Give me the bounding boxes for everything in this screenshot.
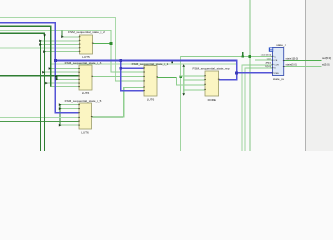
tap arrow U3p4 (56, 78, 59, 81)
svg-text:D[5:0]: D[5:0] (265, 66, 271, 68)
tap arrow U5p6 (59, 124, 62, 127)
wire U5 pin5 long medium (0, 121, 79, 122)
wire net2 light green horizontal y29.5 (0, 30, 111, 31)
wire U1 pin1 tap stub (61, 30, 62, 37)
wire reg Q2 output (284, 66, 322, 67)
wire U2rep output blue (219, 79, 238, 80)
wire vertical x241.5 (241, 64, 242, 151)
junction node net2/U1out (110, 42, 113, 45)
wire U1 pin5 branch (44, 51, 80, 52)
tap arrow x183 bottom (182, 93, 185, 96)
wire dark green y33 (0, 33, 45, 34)
wire vertical x183.6 (183, 66, 184, 96)
wire reg Q output (284, 60, 322, 61)
svg-text:CLK: CLK (267, 58, 272, 60)
wire U1 output to net2 (93, 43, 112, 44)
junction node x180.4 y76.6 (179, 75, 182, 78)
tap arrow x183 top (182, 64, 185, 67)
svg-text:FSM_sequential_state_rep: FSM_sequential_state_rep (193, 67, 230, 71)
wire blue branch to U4 pin1 (120, 67, 144, 68)
junction node blue x120 y60 (120, 59, 123, 62)
wire U5 output (92, 116, 125, 117)
wire U1 pin4 long (0, 48, 80, 49)
selected instance icon (269, 47, 273, 51)
svg-text:FDRE: FDRE (208, 98, 216, 102)
wire U5 pin2 branch (60, 108, 79, 109)
svg-text:FSM_sequential_state_i_1: FSM_sequential_state_i_1 (132, 62, 169, 66)
wire U3 pin2 branch (44, 72, 79, 73)
tap arrow U1p2 (39, 40, 42, 43)
tap arrow U1p5 (43, 50, 46, 53)
junction node blue x236.5 y72.5 (235, 72, 238, 75)
wire U5 pin1 branch (60, 104, 79, 105)
junction node x242.6 y56.3 (242, 55, 244, 57)
junction node blue x55 (54, 59, 57, 62)
wire vertical x249.8 top to bottom (250, 0, 251, 151)
wire long y56 to reg pinC (180, 56, 273, 57)
right panel background (306, 0, 333, 151)
wire reg pinCE from below (241, 64, 272, 65)
wire blue branch to U4 pin6 (120, 90, 144, 91)
LUT U1 FSM_sequential_state_i_2 (68, 30, 105, 59)
wire U1 pin2 branch (40, 40, 80, 41)
tap arrow U1p1 (61, 35, 64, 38)
wire U3 pin1 branch (50, 68, 79, 69)
svg-text:LUT6: LUT6 (147, 98, 155, 102)
LUT U2 FSM_sequential_state_rep (193, 67, 230, 102)
wire stub x242.6 above pinC line (242, 52, 243, 57)
tick mark on net (171, 62, 173, 64)
schematic canvas background (0, 0, 333, 151)
svg-text:LUT6: LUT6 (82, 91, 90, 95)
svg-text:CLR: CLR (274, 64, 279, 66)
wire blue branch to U6 pinR (236, 72, 273, 74)
wire U1 pin1 branch (61, 37, 79, 38)
svg-text:state[5:0]: state[5:0] (286, 63, 297, 67)
corner arrow T2 (43, 34, 46, 37)
wire vertical x180.4 (180, 56, 181, 151)
wire net1 branch to U4 pin4 (115, 81, 144, 82)
wire net1 light green top horizontal (0, 17, 115, 18)
wire net1 vertical T5 (115, 17, 116, 81)
wire U5 pin6 branch (60, 125, 79, 126)
wire U5out branch to U4 pin5 (123, 87, 144, 88)
wire U3 pin4 branch (56, 79, 79, 80)
wire blue sel horizontal y22.5 (0, 22, 55, 24)
wire blue sel vertical x55.4 (54, 22, 56, 113)
wire branch to U2 pin1 (180, 76, 205, 77)
wire blue vertical x236.5 (236, 60, 238, 81)
wire trunk T1 x40.5 (40, 40, 41, 151)
svg-text:AR[0]: AR[0] (266, 62, 272, 65)
junction node blue x120 y67.8 (120, 67, 123, 70)
wire net2 vertical T6 (111, 30, 112, 73)
LUT U3 FSM_sequential_state_i_3 (65, 61, 102, 95)
LUT U4 FSM_sequential_state_i_1 (132, 62, 169, 102)
wire U3 output to U4 pin3 (92, 76, 144, 77)
svg-text:FSM_sequential_state_i_3: FSM_sequential_state_i_3 (65, 61, 102, 65)
wire reg pin2 short (255, 60, 273, 61)
wire long light y63.6 (50, 64, 236, 65)
wire trunk T2 x44.5 (44, 33, 45, 151)
svg-text:state1[5:0]: state1[5:0] (261, 54, 272, 57)
wire vertical x60 (60, 104, 61, 126)
wire blue vertical x120.6 (120, 60, 121, 92)
tap arrow U3p3 (55, 75, 58, 78)
wire dark green y26 (0, 26, 51, 27)
wire U5 pin4 long light (0, 117, 79, 118)
svg-text:state_r: state_r (276, 43, 285, 47)
wire U3 pin6 branch (50, 86, 79, 87)
wire U4 output (157, 77, 176, 78)
tap arrow U5p2 (59, 107, 62, 110)
panel border line (305, 0, 306, 151)
tap arrow U5p1 (59, 103, 62, 106)
wire U1 pin3 branch (40, 44, 80, 45)
svg-text:FSM_sequential_state_i_2: FSM_sequential_state_i_2 (68, 30, 105, 34)
wire trunk T3 x50.7 (50, 26, 51, 87)
tap arrow U3p2 (42, 71, 45, 74)
wire U5out vertical x123.7 (123, 87, 124, 118)
svg-text:LUT6: LUT6 (81, 130, 89, 134)
wire U3 pin5 branch (47, 83, 79, 84)
tap arrow U3p1 (49, 67, 52, 70)
svg-text:state_re: state_re (273, 77, 284, 81)
arrowheads at trunk taps (39, 34, 185, 126)
wire U4out vertical x176.3 (176, 77, 177, 85)
wire blue branch to U5 pin3 (54, 112, 79, 113)
LUT U5 FSM_sequential_state_i_5 (65, 99, 102, 134)
wire branch to U2 pin2 (183, 80, 205, 81)
wire blue sel main horizontal y60.3 (55, 60, 238, 62)
svg-text:out[5:0]: out[5:0] (322, 56, 331, 60)
svg-text:FSM_sequential_state_i_5: FSM_sequential_state_i_5 (65, 99, 102, 103)
wire reg pinD from below (245, 68, 273, 69)
wire vertical x244.7 (245, 68, 246, 151)
wire U3 pin4 tap stub (56, 76, 57, 79)
svg-text:LUT5: LUT5 (82, 55, 90, 59)
wire branch to U2 pin4 (183, 89, 205, 90)
tap arrow U1p3 (39, 43, 42, 46)
svg-text:CE: CE (274, 60, 278, 62)
register U6 state_reg (selected) (261, 43, 286, 81)
junction node x249.8 y56.3 (249, 55, 252, 58)
svg-text:st[5:0]: st[5:0] (322, 62, 330, 66)
tap arrow U3p5 (45, 82, 48, 85)
svg-text:state1[5:0]: state1[5:0] (286, 56, 299, 60)
wire net2 branch to U4 pin2 (111, 72, 145, 73)
wire U4out to U2 pin3 (176, 84, 205, 85)
svg-text:PRE: PRE (274, 73, 279, 75)
wire U3 pin3 dark from left (0, 75, 79, 76)
